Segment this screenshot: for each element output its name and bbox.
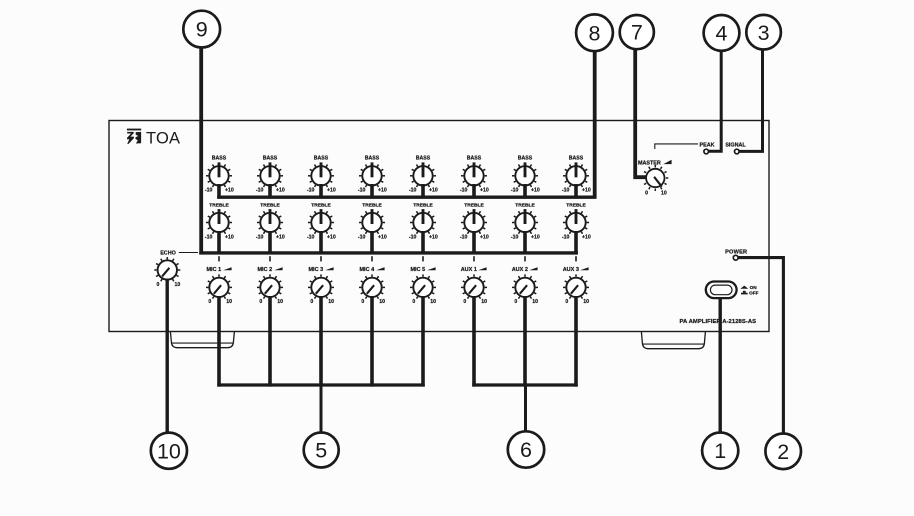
svg-text:BASS: BASS <box>416 156 431 162</box>
knob TREBLE 1 <box>206 209 232 235</box>
MASTER level wedge icon <box>663 160 671 164</box>
wire: AUX 2 drop <box>523 296 527 387</box>
svg-text:0: 0 <box>514 299 517 305</box>
power button <box>706 282 737 299</box>
svg-text:SIGNAL: SIGNAL <box>725 143 746 149</box>
svg-text:+10: +10 <box>378 187 387 193</box>
wire: TREBLE 8 knob to treble bus <box>574 231 578 255</box>
svg-text:+10: +10 <box>327 187 336 193</box>
svg-text:10: 10 <box>583 299 589 305</box>
callout 10 <box>151 433 187 469</box>
knob MIC 5 <box>410 274 436 300</box>
knob MIC 3 <box>308 274 334 300</box>
wire: MIC 5 drop <box>421 296 425 387</box>
knob MASTER <box>642 165 668 191</box>
svg-text:TREBLE: TREBLE <box>362 203 382 209</box>
wire: TREBLE 3 knob to treble bus <box>319 231 323 255</box>
knob TREBLE 3 <box>308 209 334 235</box>
AUX 1 level wedge icon <box>478 267 486 270</box>
svg-text:AUX 1: AUX 1 <box>461 267 477 273</box>
MIC 2 level wedge icon <box>274 267 282 270</box>
svg-text:-10: -10 <box>511 187 519 193</box>
svg-text:BASS: BASS <box>467 156 482 162</box>
svg-text:MIC 1: MIC 1 <box>206 267 221 273</box>
AUX 2 level wedge icon <box>529 267 537 270</box>
wire: callout 8 to bass bus <box>593 51 597 198</box>
ON icon <box>740 286 748 289</box>
knob ECHO <box>154 257 180 283</box>
knob BASS 6 <box>461 162 487 188</box>
svg-text:OFF: OFF <box>749 290 759 295</box>
knob AUX 1 <box>461 274 487 300</box>
svg-text:MIC 2: MIC 2 <box>257 267 272 273</box>
svg-text:-10: -10 <box>460 187 468 193</box>
svg-text:MIC 4: MIC 4 <box>359 267 375 273</box>
wire: MIC 3 drop <box>319 296 323 387</box>
svg-text:ON: ON <box>750 285 758 290</box>
svg-text:10: 10 <box>157 439 181 463</box>
svg-text:1: 1 <box>714 439 726 463</box>
svg-text:0: 0 <box>565 299 568 305</box>
svg-text:AUX 3: AUX 3 <box>563 267 579 273</box>
wire: BASS 5 knob to bass bus <box>421 184 425 199</box>
svg-text:ECHO: ECHO <box>160 251 176 257</box>
svg-text:-10: -10 <box>256 234 264 240</box>
svg-text:+10: +10 <box>582 187 591 193</box>
left foot <box>170 332 234 348</box>
MIC 1 level wedge icon <box>223 267 231 270</box>
svg-text:-10: -10 <box>205 234 213 240</box>
wire: ECHO knob to callout 10 <box>165 279 168 433</box>
svg-text:10: 10 <box>175 282 181 288</box>
leader: ECHO label to treble bus <box>179 252 198 254</box>
callout 7 <box>620 15 654 49</box>
knob TREBLE 7 <box>512 209 538 235</box>
svg-text:7: 7 <box>631 21 643 45</box>
svg-text:+10: +10 <box>429 187 438 193</box>
MIC 4 level wedge icon <box>376 267 384 270</box>
amplifier front panel outline <box>109 121 769 332</box>
callout 3 <box>746 15 781 50</box>
tick mark below treble bus, column 8 <box>575 256 577 261</box>
svg-text:+10: +10 <box>276 234 285 240</box>
leader bracket left of PEAK <box>655 144 698 149</box>
svg-text:-10: -10 <box>562 187 570 193</box>
wire: power button to callout 1 <box>719 298 722 432</box>
svg-text:PA AMPLIFIER A-2128S-AS: PA AMPLIFIER A-2128S-AS <box>679 319 756 325</box>
svg-text:PEAK: PEAK <box>700 143 715 149</box>
knob AUX 2 <box>512 274 538 300</box>
svg-text:0: 0 <box>310 299 313 305</box>
svg-text:+10: +10 <box>480 187 489 193</box>
knob TREBLE 2 <box>257 209 283 235</box>
knob MIC 1 <box>206 274 232 300</box>
svg-text:10: 10 <box>532 299 538 305</box>
wire: BASS 2 knob to bass bus <box>268 184 272 199</box>
OFF icon <box>741 291 748 295</box>
svg-text:+10: +10 <box>378 234 387 240</box>
svg-text:-10: -10 <box>511 234 519 240</box>
svg-text:8: 8 <box>589 21 601 45</box>
tick mark below treble bus, column 6 <box>473 256 475 261</box>
knob BASS 1 <box>206 162 232 188</box>
wire: TREBLE 1 knob to treble bus <box>217 231 221 255</box>
MIC 5 level wedge icon <box>427 267 435 270</box>
svg-text:2: 2 <box>777 440 789 464</box>
wire: BASS 6 knob to bass bus <box>472 184 476 199</box>
svg-text:BASS: BASS <box>314 156 329 162</box>
wire: POWER LED to callout 2 <box>738 258 783 434</box>
callout 6 <box>508 431 544 467</box>
wire: BASS 1 knob to bass bus <box>217 184 221 199</box>
wire: MIC 2 drop <box>268 296 272 387</box>
svg-text:TREBLE: TREBLE <box>311 203 331 209</box>
callout 2 <box>765 434 801 470</box>
svg-text:MASTER: MASTER <box>638 161 661 167</box>
svg-text:BASS: BASS <box>365 156 380 162</box>
wire: mic bus to callout 5 <box>320 385 323 433</box>
tick mark below treble bus, column 1 <box>218 256 220 261</box>
wire: mic merge bus <box>217 383 424 386</box>
wire: callout 9 to treble bus <box>199 48 203 255</box>
svg-text:10: 10 <box>379 299 385 305</box>
AUX 3 level wedge icon <box>580 267 588 270</box>
svg-text:10: 10 <box>277 299 283 305</box>
wire: callout 7 to MASTER knob <box>635 50 646 177</box>
svg-text:0: 0 <box>463 299 466 305</box>
svg-text:-10: -10 <box>307 187 315 193</box>
wire: treble bus (to callout 9) <box>199 251 578 254</box>
wire: MIC 4 drop <box>370 296 374 387</box>
callout 1 <box>702 433 738 469</box>
svg-text:-10: -10 <box>409 234 417 240</box>
wire: callout 4 to PEAK LED <box>708 51 721 151</box>
svg-text:TREBLE: TREBLE <box>464 203 484 209</box>
svg-text:10: 10 <box>661 191 667 197</box>
knob TREBLE 4 <box>359 209 385 235</box>
svg-text:TOA: TOA <box>146 130 180 148</box>
wire: BASS 3 knob to bass bus <box>319 184 323 199</box>
tick mark below treble bus, column 2 <box>269 256 271 261</box>
svg-text:+10: +10 <box>480 234 489 240</box>
knob BASS 7 <box>512 162 538 188</box>
svg-text:-10: -10 <box>307 234 315 240</box>
knob MIC 2 <box>257 274 283 300</box>
tick mark below treble bus, column 7 <box>524 256 526 261</box>
svg-text:0: 0 <box>157 282 160 288</box>
callout 4 <box>704 15 740 51</box>
knob TREBLE 8 <box>563 209 589 235</box>
svg-text:-10: -10 <box>409 187 417 193</box>
svg-text:10: 10 <box>481 299 487 305</box>
svg-text:BASS: BASS <box>518 156 533 162</box>
svg-text:3: 3 <box>758 21 770 45</box>
svg-text:0: 0 <box>259 299 262 305</box>
wire: TREBLE 7 knob to treble bus <box>523 231 527 255</box>
svg-text:AUX 2: AUX 2 <box>512 267 528 273</box>
svg-text:10: 10 <box>328 299 334 305</box>
callout 5 <box>304 433 339 468</box>
wire: TREBLE 6 knob to treble bus <box>472 231 476 255</box>
svg-text:10: 10 <box>226 299 232 305</box>
wire: aux merge bus <box>472 383 577 386</box>
knob TREBLE 5 <box>410 209 436 235</box>
wire: TREBLE 2 knob to treble bus <box>268 231 272 255</box>
knob BASS 8 <box>563 162 589 188</box>
wire: TREBLE 4 knob to treble bus <box>370 231 374 255</box>
svg-text:TREBLE: TREBLE <box>515 203 535 209</box>
wire: BASS 8 knob to bass bus <box>574 184 578 199</box>
knob TREBLE 6 <box>461 209 487 235</box>
wire: BASS 4 knob to bass bus <box>370 184 374 199</box>
svg-text:+10: +10 <box>429 234 438 240</box>
svg-text:TREBLE: TREBLE <box>260 203 280 209</box>
svg-text:6: 6 <box>520 438 532 462</box>
svg-text:-10: -10 <box>460 234 468 240</box>
svg-text:0: 0 <box>361 299 364 305</box>
wire: AUX 3 drop <box>574 296 578 387</box>
knob AUX 3 <box>563 274 589 300</box>
svg-text:0: 0 <box>208 299 211 305</box>
svg-text:MIC 3: MIC 3 <box>308 267 323 273</box>
wire: MIC 1 drop <box>217 296 221 387</box>
svg-text:-10: -10 <box>205 187 213 193</box>
svg-text:TREBLE: TREBLE <box>566 203 586 209</box>
svg-text:-10: -10 <box>358 234 366 240</box>
knob MIC 4 <box>359 274 385 300</box>
svg-text:+10: +10 <box>225 234 234 240</box>
tick mark below treble bus, column 3 <box>320 256 322 261</box>
knob BASS 2 <box>257 162 283 188</box>
svg-text:0: 0 <box>412 299 415 305</box>
wire: callout 3 to SIGNAL LED <box>739 50 763 152</box>
callout 9 <box>183 11 220 48</box>
tick mark below treble bus, column 4 <box>371 256 373 261</box>
svg-text:-10: -10 <box>358 187 366 193</box>
svg-text:TREBLE: TREBLE <box>413 203 433 209</box>
svg-text:4: 4 <box>716 22 728 46</box>
tick mark below treble bus, column 5 <box>422 256 424 261</box>
knob BASS 5 <box>410 162 436 188</box>
svg-text:BASS: BASS <box>212 156 227 162</box>
svg-text:-10: -10 <box>256 187 264 193</box>
right foot <box>641 332 705 349</box>
TOA logo mark <box>127 129 141 144</box>
svg-text:+10: +10 <box>531 187 540 193</box>
wire: bass bus (to callout 8) <box>217 195 596 198</box>
svg-text:+10: +10 <box>327 234 336 240</box>
svg-text:10: 10 <box>430 299 436 305</box>
svg-text:TREBLE: TREBLE <box>209 203 229 209</box>
svg-text:MIC 5: MIC 5 <box>410 267 425 273</box>
knob BASS 3 <box>308 162 334 188</box>
svg-text:+10: +10 <box>225 187 234 193</box>
callout 8 <box>576 14 613 51</box>
wire: BASS 7 knob to bass bus <box>523 184 527 199</box>
svg-text:BASS: BASS <box>569 156 584 162</box>
knob BASS 4 <box>359 162 385 188</box>
svg-text:+10: +10 <box>582 234 591 240</box>
SIGNAL LED <box>735 149 740 154</box>
svg-text:+10: +10 <box>531 234 540 240</box>
svg-text:+10: +10 <box>276 187 285 193</box>
svg-text:0: 0 <box>645 191 648 197</box>
wire: AUX 1 drop <box>472 296 476 387</box>
svg-text:5: 5 <box>315 439 327 463</box>
wire: TREBLE 5 knob to treble bus <box>421 231 425 255</box>
PEAK LED <box>704 149 709 154</box>
svg-text:BASS: BASS <box>263 156 278 162</box>
svg-text:9: 9 <box>196 18 208 42</box>
svg-text:-10: -10 <box>562 234 570 240</box>
POWER LED <box>733 255 738 260</box>
MIC 3 level wedge icon <box>325 267 333 270</box>
wire: aux bus to callout 6 <box>524 385 527 432</box>
